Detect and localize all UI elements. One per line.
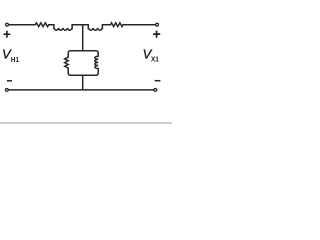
svg-text:X1: X1 — [151, 55, 159, 64]
svg-text:H1: H1 — [11, 56, 19, 65]
